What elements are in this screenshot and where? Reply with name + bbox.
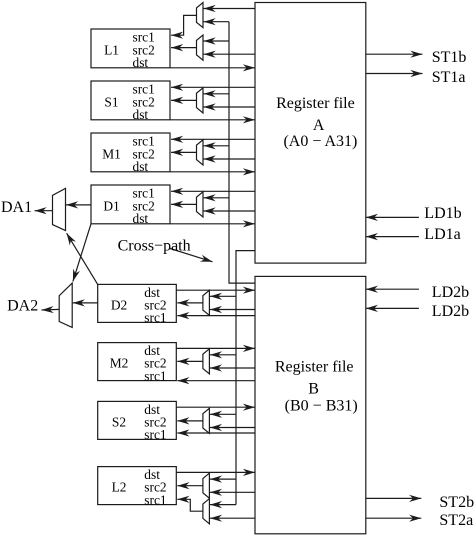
svg-text:Cross−path: Cross−path: [118, 237, 191, 254]
svg-text:L1: L1: [104, 42, 119, 57]
svg-text:S1: S1: [104, 94, 118, 109]
svg-text:D1: D1: [103, 198, 119, 213]
svg-text:S2: S2: [112, 415, 126, 430]
svg-text:M2: M2: [110, 356, 129, 371]
svg-text:dst: dst: [133, 55, 149, 70]
svg-text:Register file: Register file: [276, 95, 355, 112]
svg-text:M1: M1: [102, 146, 121, 161]
svg-text:dst: dst: [133, 159, 149, 174]
svg-text:B: B: [308, 380, 319, 397]
svg-text:dst: dst: [133, 211, 149, 226]
svg-text:ST2b: ST2b: [439, 494, 474, 511]
svg-text:LD2b: LD2b: [432, 284, 469, 301]
svg-text:L2: L2: [112, 480, 127, 495]
svg-text:src1: src1: [144, 368, 166, 383]
svg-text:ST1b: ST1b: [432, 49, 467, 66]
svg-text:LD1b: LD1b: [424, 205, 461, 222]
svg-text:A: A: [313, 117, 325, 134]
svg-text:src1: src1: [144, 310, 166, 325]
svg-text:src1: src1: [144, 492, 166, 507]
svg-text:LD1a: LD1a: [424, 226, 460, 243]
svg-text:src1: src1: [144, 427, 166, 442]
svg-text:DA1: DA1: [1, 199, 32, 216]
svg-text:DA2: DA2: [7, 298, 38, 315]
svg-text:dst: dst: [133, 107, 149, 122]
svg-text:D2: D2: [111, 298, 127, 313]
svg-text:(A0 − A31): (A0 − A31): [283, 133, 357, 150]
svg-text:ST2a: ST2a: [439, 512, 473, 529]
svg-text:LD2b: LD2b: [432, 303, 469, 320]
svg-text:(B0 − B31): (B0 − B31): [285, 397, 358, 414]
svg-text:Register file: Register file: [275, 358, 354, 375]
svg-text:ST1a: ST1a: [432, 69, 466, 86]
